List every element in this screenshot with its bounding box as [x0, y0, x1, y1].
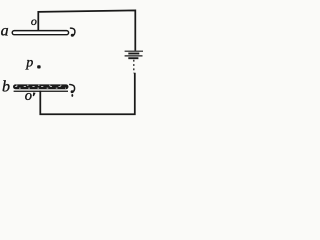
- svg-text:o: o: [31, 14, 37, 28]
- svg-text:a: a: [1, 23, 9, 40]
- svg-text:b: b: [2, 79, 10, 96]
- svg-text:p: p: [25, 56, 33, 71]
- svg-text:o: o: [25, 88, 32, 104]
